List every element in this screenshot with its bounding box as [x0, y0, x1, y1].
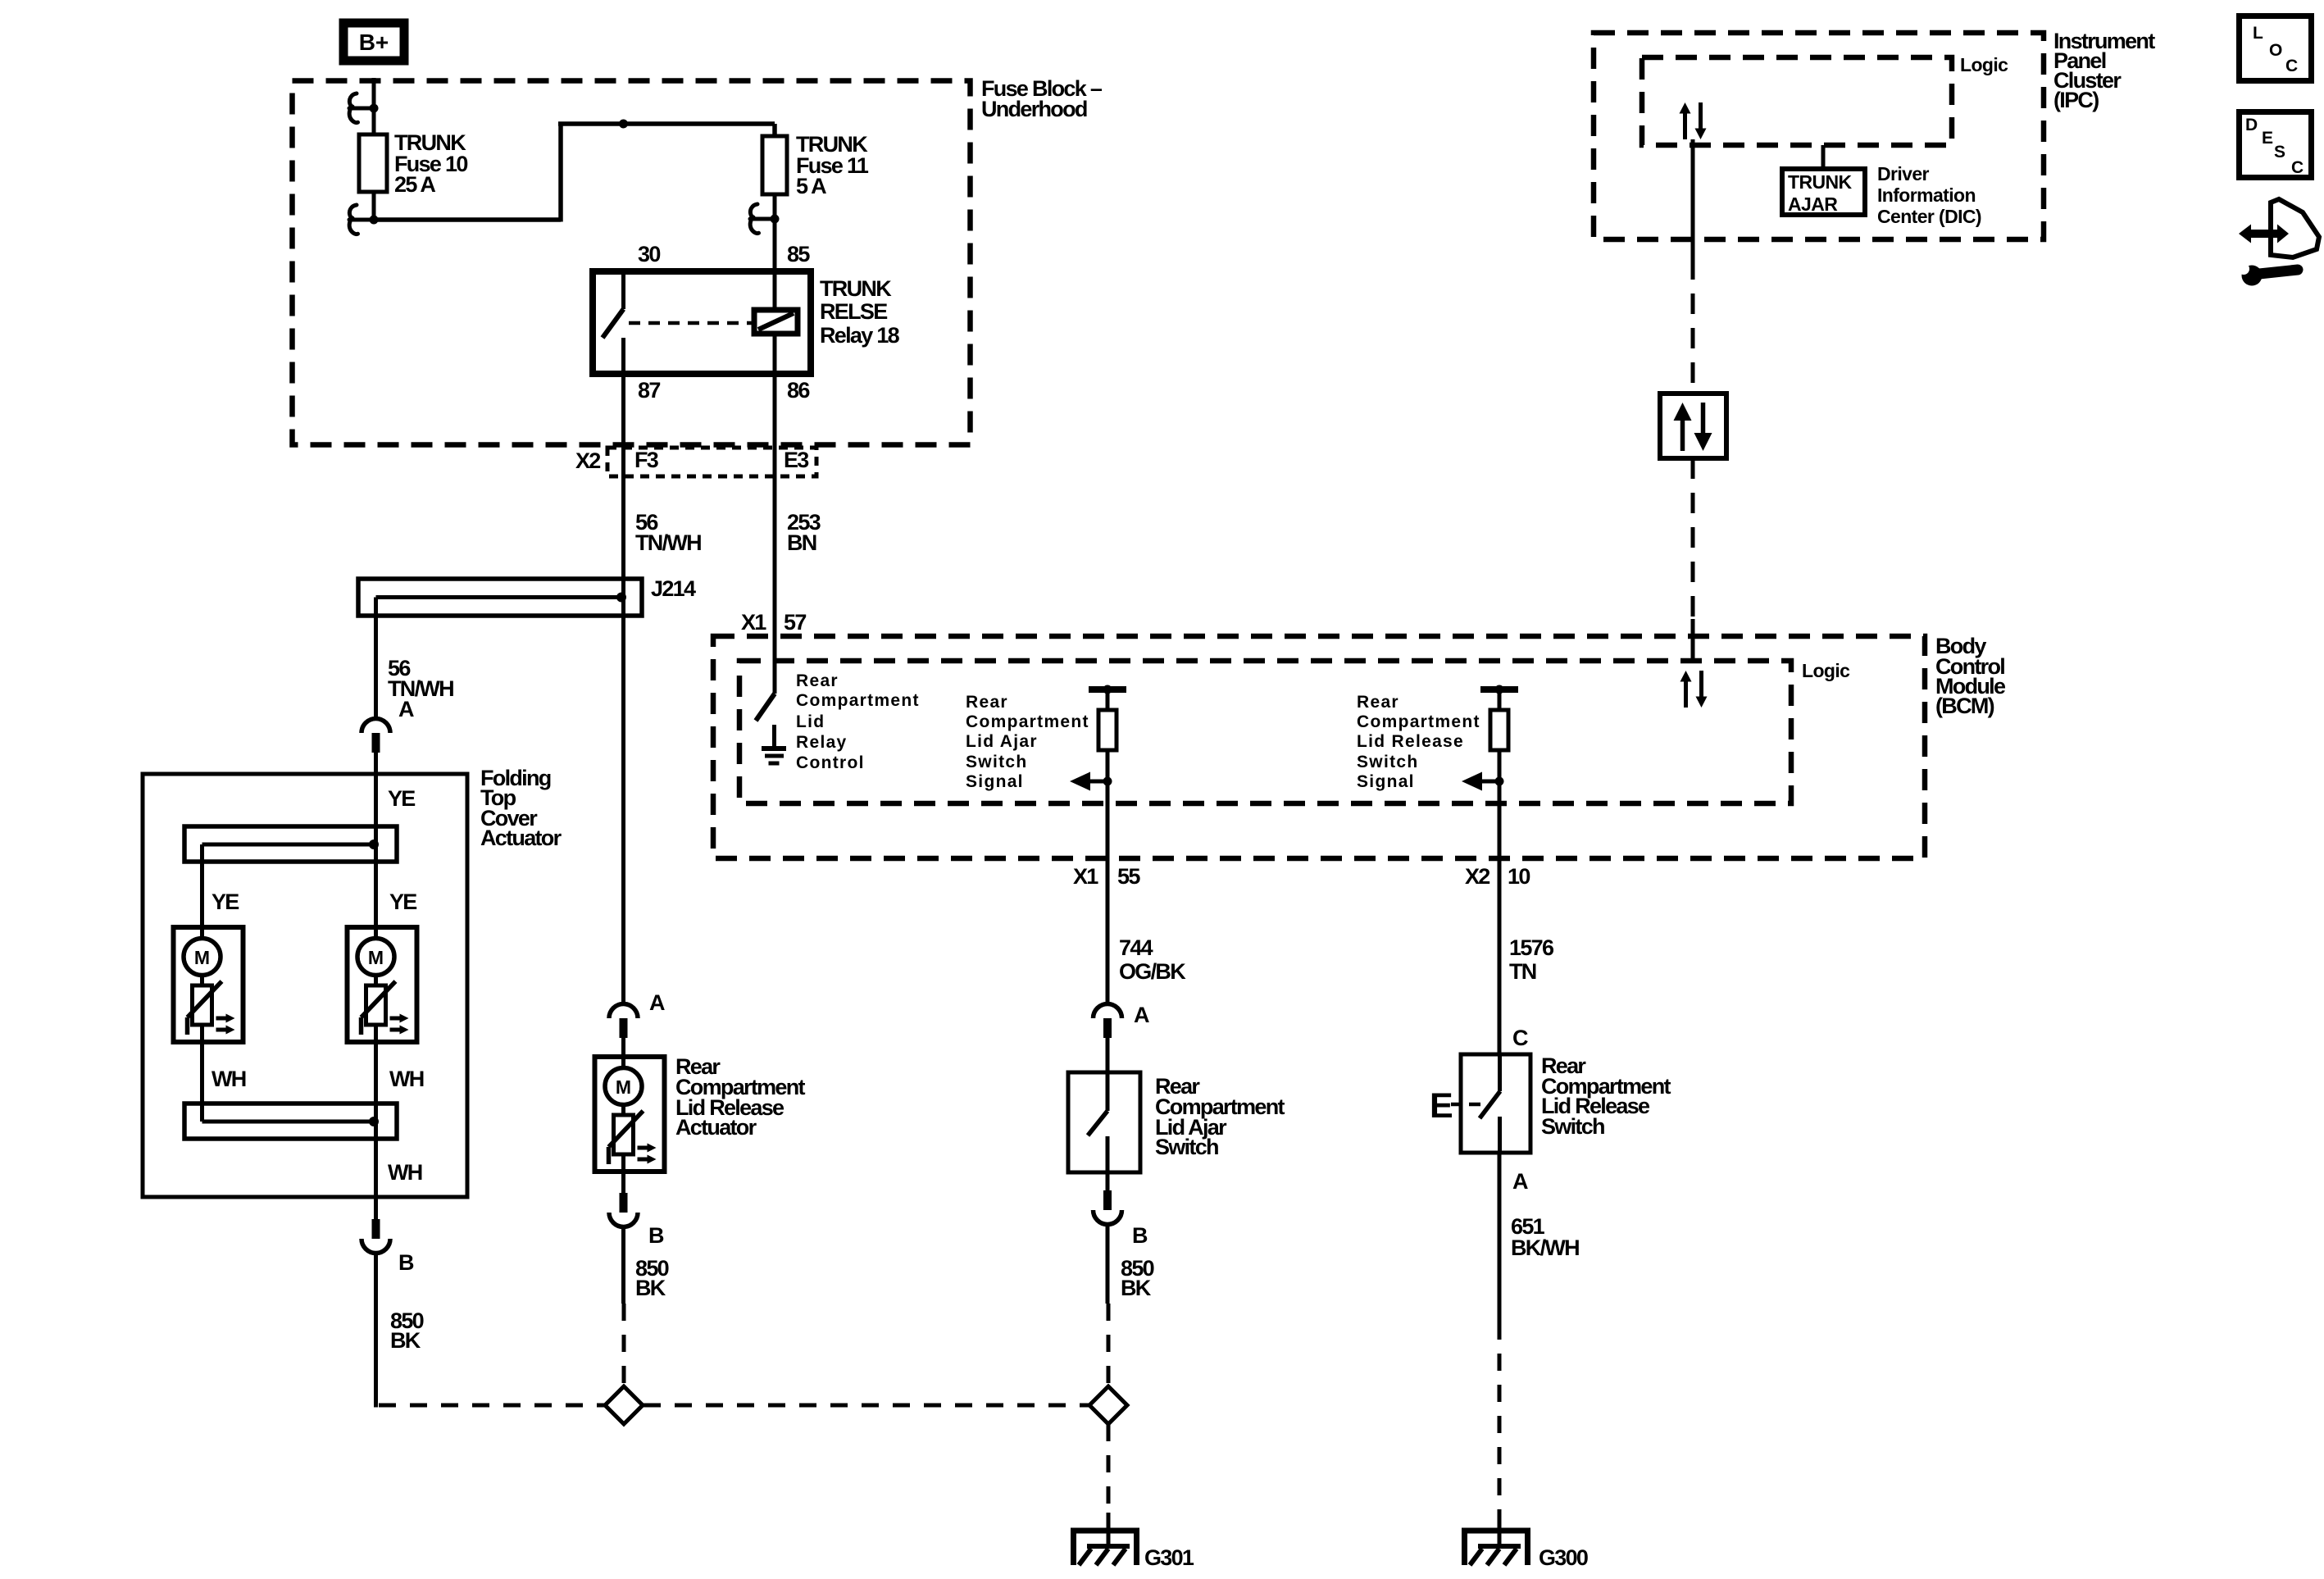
- rear compartment lid release actuator: [675, 1054, 806, 1140]
- relay switch blade: [603, 309, 624, 338]
- wire right motor through bus bar 2 to box bottom: [374, 1043, 378, 1197]
- dashed comm wire IPC to comm box: [1691, 259, 1695, 394]
- wire label 850 BK left: [390, 1308, 424, 1353]
- rear compartment lid ajar switch: [1068, 1072, 1285, 1172]
- svg-text:TN/WH: TN/WH: [635, 530, 701, 555]
- svg-text:S: S: [2274, 143, 2286, 162]
- fuse clip top of fuse 10: [349, 93, 379, 123]
- wire to fuse 11: [772, 124, 777, 136]
- dashed ground wire to G300: [1498, 1322, 1502, 1513]
- internal bus bar 2: [184, 1103, 397, 1139]
- wire bus bar 1 to left motor: [200, 844, 204, 927]
- svg-text:B: B: [648, 1223, 664, 1248]
- svg-text:Driver: Driver: [1877, 163, 1930, 184]
- svg-text:87: 87: [638, 378, 660, 403]
- IPC serial data arrows: [1680, 102, 1707, 139]
- dashed ground wire to splice middle: [622, 1304, 626, 1386]
- svg-text:57: 57: [784, 610, 806, 635]
- svg-text:B: B: [1132, 1223, 1148, 1248]
- wire DIC drop: [1821, 145, 1826, 166]
- svg-text:Rear: Rear: [966, 693, 1008, 712]
- svg-text:Switch: Switch: [966, 753, 1027, 771]
- svg-text:Relay 18: Relay 18: [820, 323, 900, 348]
- connector A folding top actuator: [362, 719, 390, 753]
- connector A release actuator: [609, 1004, 638, 1039]
- svg-text:X1: X1: [1073, 864, 1098, 889]
- ground G301: [1071, 1513, 1194, 1570]
- svg-text:30: 30: [638, 242, 660, 266]
- BCM relay control switch blade: [756, 694, 775, 721]
- connector B folding top actuator: [362, 1219, 390, 1254]
- svg-text:WH: WH: [211, 1067, 246, 1091]
- svg-text:86: 86: [787, 378, 810, 403]
- svg-text:744: 744: [1119, 935, 1153, 960]
- svg-text:Signal: Signal: [966, 772, 1024, 791]
- svg-text:Compartment: Compartment: [966, 712, 1089, 731]
- ajar switch blade: [1088, 1111, 1107, 1135]
- node and signal arrow ajar switch signal: [1070, 772, 1112, 791]
- dashed comm wire comm box to BCM: [1691, 458, 1695, 619]
- svg-text:B: B: [398, 1250, 414, 1275]
- wire circuit 253 relay 86 to BCM: [773, 334, 777, 694]
- wire BCM to release switch pin C: [1498, 858, 1502, 1054]
- svg-text:(IPC): (IPC): [2053, 88, 2099, 112]
- splice diamond left: [605, 1386, 643, 1424]
- svg-text:RELSE: RELSE: [820, 299, 887, 324]
- BCM release switch signal pull-up resistor R2: [1480, 685, 1518, 751]
- wire B+ to fuse 10: [372, 78, 376, 134]
- fuse F11 TRUNK Fuse 11 5A: [762, 132, 869, 198]
- svg-text:Rear: Rear: [796, 671, 839, 690]
- svg-text:WH: WH: [388, 1160, 422, 1185]
- svg-text:YE: YE: [389, 890, 416, 914]
- svg-text:G300: G300: [1539, 1545, 1588, 1570]
- svg-text:J214: J214: [651, 576, 696, 601]
- BCM label rear compartment lid release switch signal: [1357, 693, 1480, 791]
- relay switch pin87 stub: [621, 338, 625, 374]
- wire comm into BCM logic: [1691, 619, 1695, 661]
- svg-text:Actuator: Actuator: [675, 1115, 757, 1140]
- svg-text:L: L: [2253, 24, 2264, 43]
- svg-text:Switch: Switch: [1357, 753, 1418, 771]
- connector X2 dotted box: [607, 448, 816, 476]
- svg-text:TN: TN: [1509, 959, 1536, 984]
- instrument panel cluster IPC dashed box: [1594, 29, 2155, 239]
- svg-text:55: 55: [1117, 864, 1140, 889]
- svg-text:BK: BK: [1121, 1276, 1152, 1300]
- wire label 850 BK right: [1121, 1256, 1154, 1300]
- svg-text:BK/WH: BK/WH: [1511, 1235, 1579, 1260]
- svg-text:A: A: [649, 990, 665, 1015]
- wire resistor R1 to BCM bottom: [1106, 750, 1110, 858]
- svg-text:TRUNK: TRUNK: [820, 276, 892, 301]
- svg-text:E: E: [2262, 129, 2274, 148]
- wire feed upper horizontal: [558, 121, 775, 126]
- connector B ajar switch: [1094, 1190, 1122, 1225]
- wire circuit 56 relay 87 to J214 and release actuator: [621, 374, 625, 1003]
- IPC logic dashed box: [1642, 54, 2008, 145]
- svg-text:F3: F3: [634, 448, 659, 472]
- svg-text:(BCM): (BCM): [1935, 694, 1994, 718]
- svg-text:D: D: [2245, 116, 2258, 134]
- svg-text:A: A: [398, 697, 414, 721]
- wire label 744 OG/BK: [1119, 935, 1186, 984]
- connector label X2 pin 10: [1465, 864, 1530, 889]
- svg-text:10: 10: [1508, 864, 1530, 889]
- BCM ajar switch signal pull-up resistor R1: [1089, 685, 1126, 751]
- connector B release actuator: [609, 1193, 638, 1227]
- motor M release actuator internals: [595, 1057, 665, 1172]
- fuse block underhood dashed box: [293, 76, 1103, 445]
- BCM internal ground: [762, 725, 786, 763]
- connector label X1 pin 55: [1073, 864, 1140, 889]
- svg-text:C: C: [2291, 158, 2304, 177]
- wire BCM to ajar switch connector A: [1106, 858, 1110, 1003]
- svg-text:1576: 1576: [1509, 935, 1554, 960]
- BCM label rear compartment lid ajar switch signal: [966, 693, 1089, 791]
- fuse clip bottom of fuse 11: [750, 204, 780, 234]
- dashed ground wire to G301: [1107, 1424, 1111, 1513]
- wire ground circuit 850 right leg: [1106, 1225, 1110, 1304]
- wire resistor R2 to BCM bottom: [1498, 750, 1502, 858]
- svg-text:YE: YE: [388, 786, 415, 811]
- wire right branch through bus bar 1 to right motor: [374, 774, 378, 927]
- svg-text:Relay: Relay: [796, 733, 848, 752]
- splice J214: [358, 576, 696, 616]
- svg-text:85: 85: [787, 242, 810, 266]
- dashed ground wire to splice left: [379, 1404, 604, 1408]
- svg-text:Switch: Switch: [1155, 1135, 1218, 1159]
- motor M2 right folding top motor: [348, 927, 417, 1043]
- svg-text:A: A: [1134, 1003, 1149, 1027]
- svg-text:Logic: Logic: [1802, 660, 1850, 681]
- svg-text:Actuator: Actuator: [480, 826, 562, 850]
- wire label 1576 TN: [1509, 935, 1554, 984]
- ajar switch contact stub bottom: [1106, 1136, 1110, 1172]
- DESC legend box: [2240, 112, 2312, 178]
- internal bus bar 1: [184, 826, 397, 862]
- connector label X1 pin 57: [741, 610, 806, 635]
- svg-text:Logic: Logic: [1960, 54, 2008, 75]
- LOC legend box: [2240, 16, 2312, 81]
- svg-text:Information: Information: [1877, 184, 1976, 206]
- svg-text:E3: E3: [784, 448, 809, 472]
- svg-text:Control: Control: [796, 753, 865, 772]
- relay switch pin30 stub: [621, 271, 625, 309]
- junction node at relay pin 30 branch: [619, 120, 628, 129]
- node and signal arrow release switch signal: [1462, 772, 1504, 791]
- wire feed riser: [558, 122, 563, 222]
- wire fuse 11 to relay pin 85: [773, 194, 777, 310]
- wire release switch to ground run: [1498, 1153, 1502, 1322]
- svg-text:Rear: Rear: [1357, 693, 1399, 712]
- serial data communication box: [1660, 394, 1726, 458]
- svg-text:Compartment: Compartment: [796, 691, 920, 710]
- BCM label rear compartment lid relay control: [796, 671, 920, 772]
- BCM serial data arrows: [1680, 671, 1708, 708]
- wire connector A to release actuator: [621, 1038, 625, 1057]
- service information icon: [2238, 199, 2319, 286]
- wire ground circuit 850 middle leg: [621, 1227, 625, 1304]
- wire left motor to bus bar 2: [200, 1043, 204, 1122]
- rear compartment lid release switch: [1461, 1053, 1671, 1153]
- relay K18 box: [593, 271, 900, 374]
- wire into folding top actuator: [374, 753, 378, 774]
- driver information center label: [1877, 163, 1981, 227]
- wire feed lower horizontal: [374, 217, 561, 222]
- svg-text:Center (DIC): Center (DIC): [1877, 206, 1981, 227]
- svg-text:BK: BK: [390, 1328, 421, 1353]
- wire label 253 BN: [787, 510, 821, 555]
- svg-text:Switch: Switch: [1541, 1114, 1604, 1139]
- wire fuse 10 to lower junction: [372, 192, 376, 220]
- svg-text:Lid Release: Lid Release: [1357, 732, 1464, 751]
- fuse clip bottom of fuse 10: [349, 205, 379, 234]
- svg-text:E: E: [1430, 1086, 1453, 1126]
- wire ajar switch to connector B: [1106, 1172, 1110, 1190]
- svg-text:B+: B+: [359, 30, 389, 55]
- svg-text:WH: WH: [389, 1067, 424, 1091]
- svg-text:Signal: Signal: [1357, 772, 1415, 791]
- splice diamond right: [1089, 1386, 1127, 1424]
- wire ground circuit 850 left leg: [374, 1254, 378, 1408]
- svg-text:Lid Ajar: Lid Ajar: [966, 732, 1038, 751]
- BCM logic dashed box: [739, 660, 1850, 803]
- wire label 651 BK/WH: [1511, 1214, 1579, 1260]
- wire J214 left branch to folding top actuator: [374, 598, 378, 718]
- fuse F10 TRUNK Fuse 10 25A: [359, 130, 467, 197]
- svg-text:Underhood: Underhood: [981, 97, 1087, 121]
- dashed ground wire ajar switch to splice: [1107, 1304, 1111, 1386]
- dashed ground wire splice to splice: [644, 1404, 1089, 1408]
- svg-text:C: C: [1512, 1026, 1528, 1050]
- relay actuation dashed link: [629, 321, 753, 325]
- svg-text:Compartment: Compartment: [1357, 712, 1480, 731]
- release switch blade: [1480, 1091, 1500, 1118]
- connector A ajar switch: [1094, 1004, 1122, 1039]
- svg-text:G301: G301: [1144, 1545, 1194, 1570]
- svg-text:Lid: Lid: [796, 712, 825, 731]
- trunk ajar indicator box: [1782, 169, 1865, 215]
- svg-text:YE: YE: [211, 890, 239, 914]
- release switch contact stub top: [1498, 1054, 1502, 1091]
- release switch contact stub bottom: [1498, 1117, 1502, 1153]
- svg-text:TRUNK: TRUNK: [1788, 171, 1852, 193]
- wire label 56 TN/WH left: [388, 656, 453, 701]
- wire label 56 TN/WH upper: [635, 510, 701, 555]
- svg-text:BK: BK: [635, 1276, 666, 1300]
- svg-text:O: O: [2269, 41, 2284, 60]
- svg-text:25 A: 25 A: [394, 172, 435, 197]
- svg-text:5 A: 5 A: [796, 174, 826, 198]
- svg-text:X2: X2: [1465, 864, 1489, 889]
- svg-text:C: C: [2285, 57, 2299, 75]
- wire release actuator to connector B: [621, 1172, 625, 1193]
- wire connector A to ajar switch: [1106, 1038, 1110, 1072]
- wire label 850 BK middle: [635, 1256, 669, 1300]
- ajar switch contact stub top: [1106, 1072, 1110, 1111]
- svg-text:X1: X1: [741, 610, 766, 635]
- relay coil: [754, 310, 798, 334]
- body control module BCM dashed box: [713, 634, 2006, 858]
- power symbol B+: [343, 23, 404, 61]
- dashed actuation link E: [1451, 1103, 1480, 1107]
- motor M1 left folding top motor: [174, 927, 243, 1043]
- wire IPC logic to IPC bottom: [1691, 139, 1695, 259]
- wire actuator box to connector B: [374, 1197, 378, 1219]
- svg-text:OG/BK: OG/BK: [1119, 959, 1186, 984]
- svg-text:X2: X2: [575, 448, 600, 473]
- svg-text:BN: BN: [787, 530, 816, 555]
- svg-text:AJAR: AJAR: [1788, 193, 1838, 215]
- svg-text:A: A: [1512, 1169, 1528, 1194]
- folding top cover actuator box: [143, 766, 562, 1197]
- ground G300: [1462, 1513, 1588, 1570]
